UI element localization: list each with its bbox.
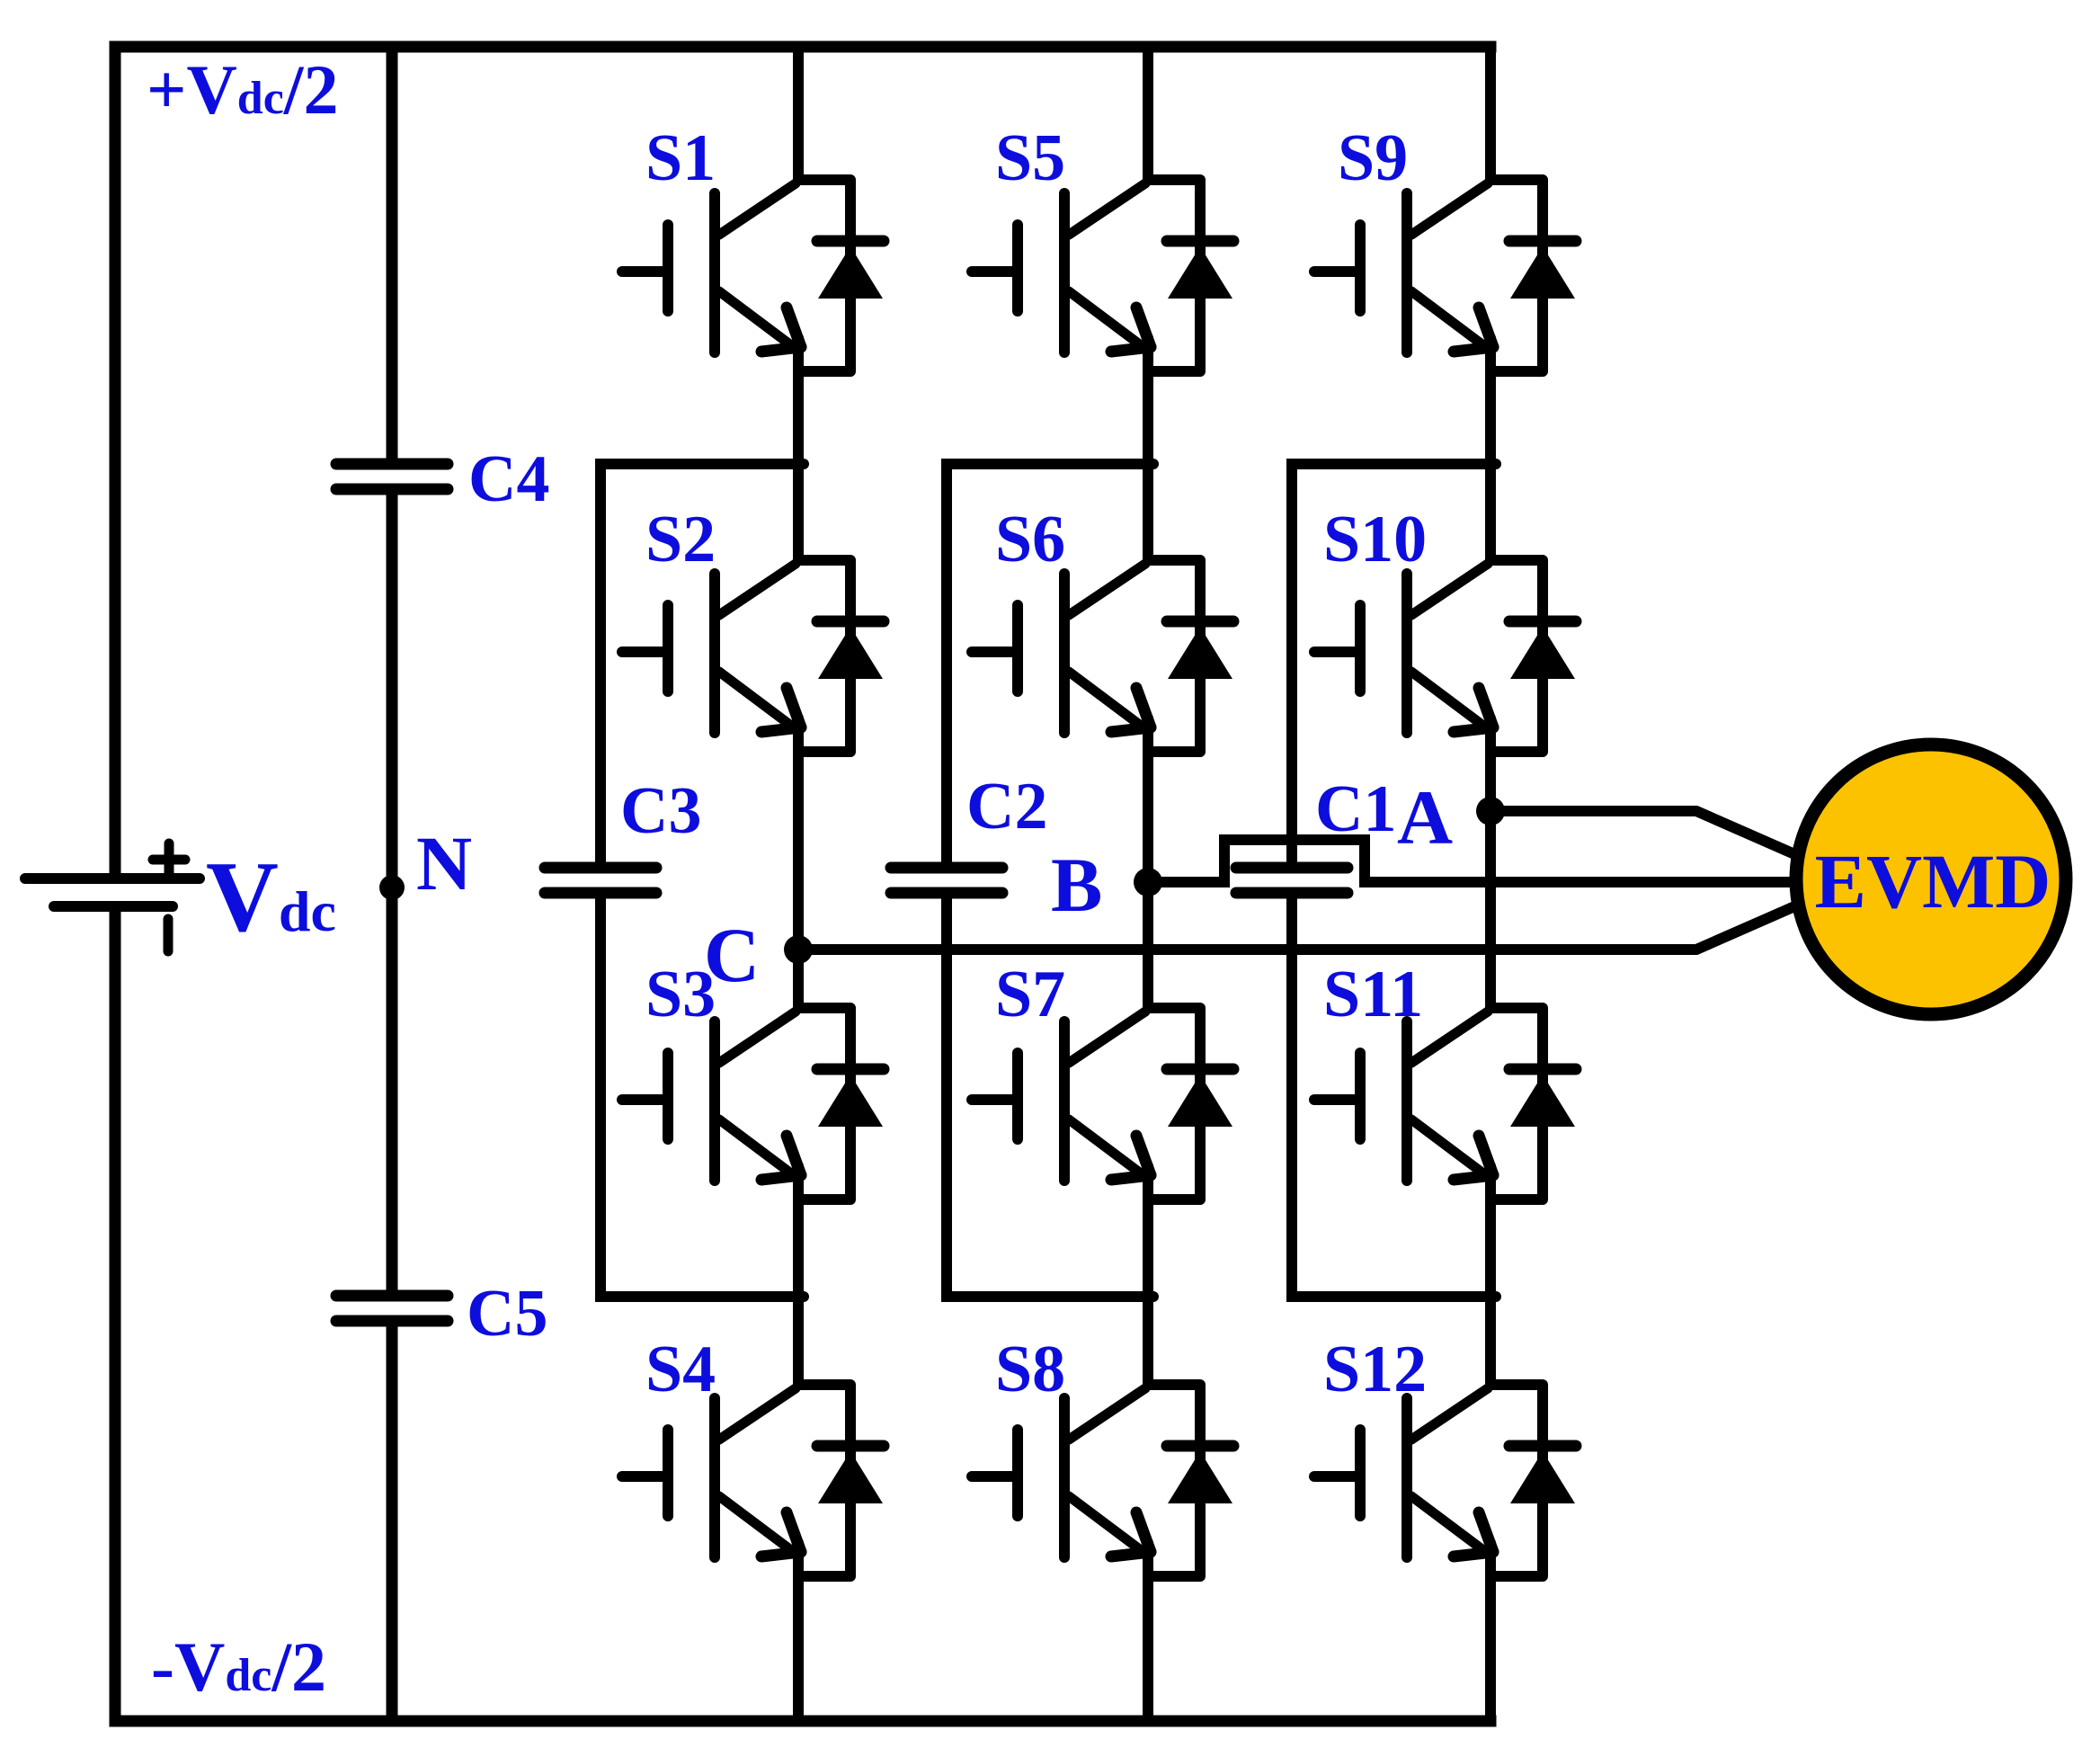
net label -Vdc/2: [151, 1628, 326, 1706]
node C junction dot: [784, 935, 813, 964]
wire: phase B output with hop over C1: [1148, 840, 1807, 882]
transistor S3 (IGBT with antiparallel diode): [622, 1008, 884, 1200]
svg-text:S1: S1: [645, 121, 716, 195]
capacitor C2: [891, 868, 1002, 893]
capacitor C4: [336, 464, 448, 489]
capacitor C5: [336, 1296, 448, 1321]
svg-text:C1: C1: [1315, 772, 1396, 846]
transistor S6 (IGBT with antiparallel diode): [972, 560, 1233, 752]
label C1: [1315, 772, 1396, 846]
transistor S1 (IGBT with antiparallel diode): [622, 180, 884, 371]
svg-text:S9: S9: [1338, 121, 1408, 195]
wire: left source rail (battery branch): [110, 41, 121, 1726]
svg-text:S3: S3: [645, 958, 716, 1031]
battery Vdc positive long plate: [25, 873, 200, 884]
label S12: [1323, 1333, 1427, 1406]
svg-text:S6: S6: [995, 503, 1065, 576]
svg-text:S8: S8: [995, 1333, 1065, 1406]
transistor S8 (IGBT with antiparallel diode): [972, 1385, 1233, 1576]
wire: phase C output to EVMD: [798, 901, 1807, 950]
transistor S4 (IGBT with antiparallel diode): [622, 1385, 884, 1576]
label B: [1051, 842, 1102, 928]
label S1: [645, 121, 716, 195]
transistor S9 (IGBT with antiparallel diode): [1314, 180, 1576, 371]
wire: C1 flying-capacitor loop: [1292, 464, 1496, 1297]
transistor S12 (IGBT with antiparallel diode): [1314, 1385, 1576, 1576]
net label +Vdc/2: [147, 50, 338, 129]
wire: phase leg B vertical segments: [1143, 41, 1153, 1726]
svg-text:C3: C3: [620, 774, 701, 848]
svg-text:S5: S5: [995, 121, 1065, 195]
wire: neutral mid-point rail with C4/C5: [387, 41, 398, 1726]
label S9: [1338, 121, 1408, 195]
label A: [1397, 774, 1453, 861]
transistor S10 (IGBT with antiparallel diode): [1314, 560, 1576, 752]
svg-text:S2: S2: [645, 503, 716, 576]
label S10: [1323, 503, 1427, 576]
label C3: [620, 774, 701, 848]
label S7: [995, 958, 1065, 1031]
wire: -Vdc/2 bottom DC bus rail: [115, 1716, 1490, 1727]
label S6: [995, 503, 1065, 576]
battery Vdc negative short plate: [54, 901, 173, 912]
wire: phase leg C vertical segments: [793, 41, 804, 1726]
wire: +Vdc/2 top DC bus rail: [115, 41, 1490, 53]
svg-text:A: A: [1397, 774, 1453, 861]
label C5: [467, 1277, 547, 1351]
label EVMD: [1815, 838, 2051, 924]
wire: phase A output to EVMD: [1490, 811, 1807, 860]
battery plus sign: [153, 843, 185, 876]
transistor S11 (IGBT with antiparallel diode): [1314, 1008, 1576, 1200]
node A junction dot: [1476, 797, 1505, 825]
wire: phase leg A vertical segments: [1485, 41, 1496, 1726]
label S11: [1323, 958, 1423, 1031]
EVMD motor/load circle: [1796, 745, 2066, 1014]
node N junction dot: [379, 875, 405, 900]
transistor S7 (IGBT with antiparallel diode): [972, 1008, 1233, 1200]
label Vdc (battery): [206, 842, 336, 953]
label N: [416, 820, 472, 906]
svg-text:S10: S10: [1323, 503, 1427, 576]
label S4: [645, 1333, 716, 1406]
capacitor C1: [1236, 868, 1348, 893]
svg-text:EVMD: EVMD: [1815, 838, 2051, 924]
transistor S5 (IGBT with antiparallel diode): [972, 180, 1233, 371]
label C2: [966, 770, 1047, 843]
svg-text:N: N: [416, 820, 472, 906]
label S3: [645, 958, 716, 1031]
svg-text:C2: C2: [966, 770, 1047, 843]
svg-text:S4: S4: [645, 1333, 716, 1406]
label C (phase node): [704, 912, 760, 998]
svg-text:S12: S12: [1323, 1333, 1427, 1406]
svg-text:S7: S7: [995, 958, 1065, 1031]
wire: C3 flying-capacitor loop: [601, 464, 804, 1297]
label S5: [995, 121, 1065, 195]
node B junction dot: [1134, 868, 1162, 896]
battery minus tick: [164, 919, 174, 951]
label C4: [468, 442, 549, 516]
label S8: [995, 1333, 1065, 1406]
svg-text:C4: C4: [468, 442, 549, 516]
svg-text:C5: C5: [467, 1277, 547, 1351]
wire: C2 flying-capacitor loop: [947, 464, 1153, 1297]
svg-text:B: B: [1051, 842, 1102, 928]
svg-text:S11: S11: [1323, 958, 1423, 1031]
transistor S2 (IGBT with antiparallel diode): [622, 560, 884, 752]
capacitor C3: [545, 868, 656, 893]
label S2: [645, 503, 716, 576]
